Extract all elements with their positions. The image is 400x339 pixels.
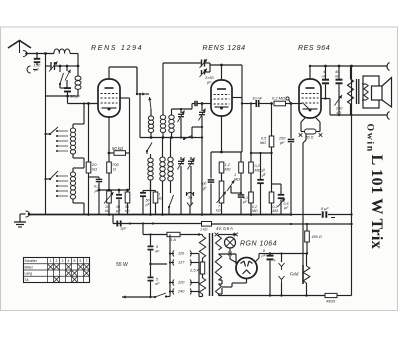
- rectifier filament winding: [216, 284, 222, 294]
- wire rectifier output: [255, 258, 259, 262]
- wire grid rail to V1: [68, 103, 99, 105]
- svg-text:127: 127: [178, 261, 185, 265]
- svg-text:MΩ: MΩ: [273, 209, 279, 213]
- wire osc to V2 grid nodes: [196, 137, 202, 139]
- phono jack below 130pF: [27, 66, 31, 73]
- potentiometer 250k tone: [335, 95, 343, 106]
- resistor 0.2M ohm coupling: [274, 101, 286, 106]
- band switch coil assembly 2: [56, 175, 58, 177]
- resistor 1k ohm series heater bus: [202, 222, 212, 227]
- wire V2 grid left: [198, 103, 212, 105]
- svg-text:2,5 A: 2,5 A: [189, 268, 200, 273]
- wire trimmer to switch node: [60, 65, 67, 67]
- wire V3 grid: [299, 103, 302, 105]
- transformer primary winding lower: [199, 278, 205, 294]
- wire antenna to L1: [27, 53, 55, 55]
- ground symbol: [26, 211, 30, 217]
- fuse 1A: [167, 232, 180, 236]
- resistor 450 ohm: [306, 224, 308, 231]
- svg-text:MΩ: MΩ: [234, 178, 240, 182]
- svg-text:1µF: 1µF: [120, 227, 127, 231]
- bottom rail: [219, 295, 326, 297]
- capacitor 0.2uF AVC: [89, 176, 100, 178]
- wire bottom rail to break: [352, 114, 387, 116]
- tube V2 RENS 1284: [221, 65, 223, 80]
- wire L1 to right corner: [70, 53, 78, 55]
- svg-text:8 µF: 8 µF: [321, 207, 329, 211]
- mid rail y137-138: [140, 137, 196, 139]
- wire AVC vertical: [88, 104, 90, 163]
- table X marks Mittel: [48, 264, 53, 269]
- svg-text:MΩ: MΩ: [255, 169, 261, 173]
- padder connections right: [192, 126, 202, 128]
- svg-text:1 kΩ: 1 kΩ: [200, 228, 208, 232]
- wire V1 anode top loop: [108, 67, 110, 79]
- band switch coil assembly 1: [56, 130, 58, 132]
- capacitor 5nF mains a: [150, 235, 152, 246]
- HT rail: [270, 253, 307, 255]
- transformer primary winding: [199, 236, 205, 258]
- oscillator coils top row: [148, 116, 153, 133]
- series cap on V2 grid rail: [194, 101, 196, 107]
- svg-text:5: 5: [74, 259, 76, 263]
- wire top rail to break: [352, 65, 387, 67]
- bus junction dots: [87, 213, 90, 216]
- speaker voice coil: [364, 84, 368, 100]
- capacitor 10uF decoupling: [260, 153, 262, 179]
- svg-text:RENS 1294: RENS 1294: [91, 45, 143, 52]
- junction mains mid: [149, 263, 151, 265]
- wire 0.5M ohm branch: [271, 104, 273, 137]
- wire bottom antenna section: [46, 95, 68, 97]
- svg-text:7: 7: [86, 259, 88, 263]
- svg-text:55 W: 55 W: [116, 262, 129, 268]
- trimmer on V2 grid: [201, 104, 203, 112]
- capacitor 130pF: [36, 52, 38, 54]
- capacitor 1uF: [116, 221, 118, 227]
- switch above osc coil: [150, 109, 152, 116]
- svg-text:MΩ: MΩ: [225, 168, 231, 172]
- resistor 450 ohm speaker hum: [325, 293, 337, 297]
- wire osc block bottoms to bus: [150, 180, 152, 215]
- svg-text:Schalter: Schalter: [25, 259, 38, 263]
- wire V1 cathode down: [108, 117, 110, 162]
- svg-text:2: 2: [56, 259, 58, 263]
- svg-text:240: 240: [177, 290, 185, 294]
- wire V3 anode top: [309, 66, 311, 79]
- svg-text:4: 4: [68, 259, 70, 263]
- switch osc mid: [183, 138, 185, 140]
- resistor 50k ohm cathode: [127, 190, 129, 192]
- svg-text:3: 3: [62, 259, 64, 263]
- svg-text:+: +: [274, 258, 277, 263]
- oscillator coils bottom row: [148, 158, 153, 180]
- switch S1a: [59, 66, 61, 72]
- grid terminal V3: [286, 97, 289, 100]
- trimmer capacitor 2x50pF: [199, 62, 202, 64]
- svg-text:250: 250: [335, 107, 343, 111]
- svg-text:0,2 MΩ: 0,2 MΩ: [272, 96, 285, 101]
- output transformer primary: [348, 79, 354, 104]
- svg-text:8: 8: [263, 249, 265, 253]
- speaker magnet box: [363, 76, 379, 108]
- resistor 50k ohm: [109, 152, 114, 154]
- svg-text:1: 1: [234, 173, 236, 177]
- capacitor 4nF: [325, 66, 327, 79]
- wire top rail over V2: [210, 64, 242, 66]
- coil L1 antenna: [54, 49, 70, 54]
- wire left vertical bus: [45, 96, 47, 215]
- capacitor 40nF: [338, 66, 340, 79]
- trimmer cap osc 3: [180, 157, 182, 160]
- switch arm band 1: [46, 133, 51, 135]
- resistor 50 ohm hum pot: [305, 129, 317, 134]
- svg-text:nF: nF: [155, 250, 160, 254]
- tube V3 RES 964: [299, 79, 321, 118]
- capacitor 50uF bus: [142, 191, 144, 193]
- svg-text:pF: pF: [206, 81, 212, 85]
- rail under V2: [211, 151, 242, 153]
- wire cathode network rail: [99, 189, 130, 191]
- filament winding 4V: [216, 236, 222, 250]
- secondary bus continue: [130, 223, 202, 225]
- svg-text:220: 220: [177, 281, 185, 285]
- resistor 0.2M ohm lower a: [249, 192, 254, 203]
- svg-text:nF: nF: [155, 282, 160, 286]
- svg-text:Lang: Lang: [25, 272, 33, 276]
- speaker cone: [372, 86, 383, 100]
- capacitor 0.5uF tone: [272, 183, 282, 185]
- svg-text:4V, 0,6 A: 4V, 0,6 A: [216, 226, 233, 231]
- band switch table: [24, 258, 90, 283]
- secondary bus wire: [113, 223, 130, 225]
- resistor 20k ohm AVC: [86, 162, 91, 173]
- wire V1 anode to IF: [137, 93, 146, 95]
- output transformer core: [356, 79, 358, 104]
- table X marks Lang: [66, 271, 71, 276]
- svg-text:nF: nF: [335, 75, 340, 79]
- table X marks TA: [54, 277, 59, 282]
- antenna: [8, 41, 31, 49]
- heater line with fuse: [143, 234, 167, 236]
- svg-text:110: 110: [178, 252, 185, 256]
- capacitor 8uF filter: [267, 255, 274, 257]
- wire selector links: [169, 235, 171, 297]
- svg-text:nF: nF: [322, 75, 327, 79]
- svg-text:0,2: 0,2: [255, 164, 261, 168]
- pilot socket 3a: [187, 193, 194, 196]
- svg-text:RGN 1064: RGN 1064: [240, 241, 277, 248]
- svg-text:50 Ω: 50 Ω: [306, 136, 314, 140]
- wire screen divider down: [129, 153, 131, 190]
- resistor 700 ohm cathode: [107, 162, 112, 173]
- wire V2 screen right: [232, 97, 242, 99]
- capacitor 0.1uF V2: [231, 192, 241, 194]
- tube V3 filament diagonal: [304, 104, 310, 110]
- svg-text:4: 4: [323, 70, 325, 74]
- resistor 1M ohm: [239, 162, 244, 173]
- mains switch: [122, 296, 151, 298]
- capacitor 10uF cathode: [118, 190, 120, 194]
- rectifier tube RGN1064: [236, 258, 257, 279]
- svg-text:RENS 1284: RENS 1284: [203, 45, 246, 52]
- capacitor 5nF mains b: [148, 276, 154, 278]
- svg-text:Mittel: Mittel: [25, 265, 33, 269]
- wire coil1 top to grid line: [83, 104, 85, 125]
- svg-text:10 nF: 10 nF: [252, 96, 263, 101]
- switch arm below mid rail: [146, 150, 148, 152]
- svg-text:1,2: 1,2: [225, 163, 231, 167]
- wire top rail to trimmer 2x50: [163, 62, 199, 64]
- wires transformer to rectifier: [219, 253, 237, 255]
- svg-text:450 Ω: 450 Ω: [312, 235, 322, 239]
- svg-text:kΩ: kΩ: [92, 167, 97, 172]
- bottom rail output: [330, 114, 352, 116]
- capacitor 10nF coupling: [255, 100, 257, 107]
- main ground bus: [29, 214, 290, 216]
- resistor 0.2M ohm AVC2: [250, 153, 252, 162]
- svg-text:50 kΩ: 50 kΩ: [112, 146, 124, 151]
- resistor 1k ohm bus: [153, 192, 158, 203]
- wire V1 screen right: [120, 97, 130, 99]
- svg-text:Feld: Feld: [290, 272, 299, 277]
- svg-text:3a: 3a: [188, 196, 192, 200]
- capacitor 8uF electrolytic on bus: [290, 214, 321, 216]
- svg-text:6: 6: [80, 259, 82, 263]
- rail 153 branch: [251, 152, 272, 154]
- potentiometer 7k ohm: [219, 181, 224, 203]
- HV winding: [215, 254, 221, 280]
- capacitor 250pF: [290, 104, 292, 139]
- capacitor 50pF padding: [64, 87, 71, 89]
- resistor 1.2M ohm: [219, 162, 224, 173]
- wire mains vertical a: [142, 224, 144, 235]
- dial lamp: [225, 237, 236, 248]
- svg-text:kΩ: kΩ: [105, 209, 110, 213]
- trimmer cap osc 4: [190, 157, 192, 160]
- trimmer capacitor antenna circuit: [46, 65, 52, 67]
- svg-text:MΩ: MΩ: [260, 141, 266, 145]
- svg-text:pF: pF: [279, 141, 285, 145]
- primary fuse: [200, 262, 204, 274]
- resistor 0.5M ohm: [269, 136, 274, 147]
- wire V3 cathode to field coil: [305, 134, 307, 140]
- svg-text:kΩ: kΩ: [159, 197, 164, 201]
- potentiometer volume: [108, 190, 110, 191]
- resistor 0.2M ohm lower b: [271, 153, 273, 192]
- svg-text:L 101 W Trix: L 101 W Trix: [368, 155, 386, 250]
- potentiometer regen: [227, 180, 235, 191]
- wire osc bottom connections: [162, 138, 164, 158]
- svg-text:1 A: 1 A: [170, 237, 176, 242]
- wire V2 cathode down: [221, 116, 223, 152]
- svg-text:Ω: Ω: [113, 167, 116, 172]
- top rail output: [310, 65, 352, 67]
- svg-text:2×50: 2×50: [204, 76, 214, 80]
- variable capacitor arrow branch: [66, 66, 68, 71]
- svg-text:1: 1: [50, 259, 52, 263]
- trimmer cap osc 1: [180, 109, 182, 113]
- svg-text:250: 250: [278, 137, 286, 141]
- switch wave band lower: [168, 206, 170, 208]
- wire left drop from antenna node: [45, 54, 47, 97]
- antenna plug: [23, 51, 27, 57]
- capacitor 100pF: [210, 162, 212, 179]
- wire V2 anode coupling: [242, 103, 256, 105]
- svg-text:MΩ: MΩ: [252, 209, 258, 213]
- svg-text:kΩ: kΩ: [125, 209, 130, 213]
- IF rail y109: [172, 108, 193, 110]
- svg-text:kΩ: kΩ: [216, 209, 221, 213]
- svg-text:0,5: 0,5: [261, 137, 267, 141]
- coil L2 secondary: [77, 66, 79, 76]
- svg-text:450Ω: 450Ω: [326, 300, 335, 304]
- voltage selector contacts: [173, 251, 174, 257]
- pickup jacks: [281, 254, 283, 263]
- tube V1 RENS 1294: [98, 79, 120, 117]
- transformer core: [209, 233, 211, 296]
- heater bus lower: [281, 223, 352, 225]
- svg-text:RES 964: RES 964: [298, 45, 330, 52]
- right bus vertical: [351, 66, 353, 115]
- svg-text:Owin: Owin: [365, 124, 376, 153]
- switch arm band 2: [46, 178, 51, 180]
- wire V3 anode out right: [321, 98, 326, 100]
- field coil: [302, 265, 304, 284]
- tube V3 base box: [301, 118, 305, 122]
- wire osc top connections: [146, 93, 150, 95]
